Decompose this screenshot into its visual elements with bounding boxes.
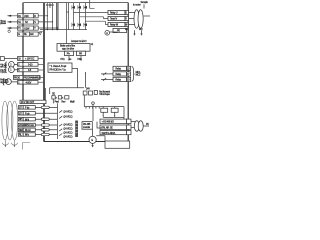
svg-text:PU: PU (146, 124, 149, 126)
svg-text:Multi: Multi (70, 100, 75, 103)
svg-text:(24 VDC): (24 VDC) (64, 133, 73, 135)
svg-text:+ RS-485 I/O: + RS-485 I/O (102, 122, 115, 124)
svg-text:RM: RM (19, 130, 23, 132)
svg-text:(24 VDC): (24 VDC) (64, 137, 73, 139)
svg-text:module: module (83, 127, 91, 129)
svg-text:STon Rape: STon Rape (99, 94, 110, 96)
svg-text:Relay U: Relay U (110, 13, 118, 15)
svg-text:Jumper rm ECO: Jumper rm ECO (71, 40, 87, 43)
svg-text:FRL NP, SE: FRL NP, SE (102, 127, 114, 129)
svg-text:mA DC: mA DC (0, 66, 7, 69)
svg-text:4-20V: 4-20V (26, 83, 32, 85)
svg-text:phase: phase (0, 23, 7, 25)
svg-text:GN: GN (30, 34, 34, 36)
svg-text:U1N: U1N (24, 16, 29, 18)
svg-text:signal in: signal in (0, 82, 8, 84)
svg-text:Terml V: Terml V (110, 18, 118, 21)
svg-text:RS-485: RS-485 (83, 124, 91, 126)
svg-text:24V: 24V (86, 88, 90, 90)
svg-text:G: G (18, 34, 20, 36)
svg-text:MC1,: MC1, (136, 72, 142, 74)
svg-text:PR: PR (79, 54, 82, 56)
svg-text:PROGRAMMABLE: PROGRAMMABLE (23, 77, 41, 80)
svg-text:(24 VDC): (24 VDC) (64, 129, 73, 131)
svg-text:(24 VDC): (24 VDC) (64, 117, 73, 119)
svg-text:to motor: to motor (133, 4, 141, 7)
svg-text:+ 10V DC: + 10V DC (25, 59, 35, 61)
svg-text:PROG: PROG (14, 78, 20, 80)
svg-text:V DC: V DC (0, 72, 6, 74)
svg-text:JOG/MRS Com: JOG/MRS Com (19, 125, 34, 127)
svg-text:* 1. Class A, B opt: * 1. Class A, B opt (50, 65, 67, 68)
svg-text:Brake unit of the: Brake unit of the (60, 45, 76, 48)
svg-text:(24 VDC): (24 VDC) (64, 125, 73, 127)
svg-text:G: G (91, 140, 93, 142)
svg-text:Sample: Sample (141, 2, 149, 4)
svg-text:SGHTG-RD21: SGHTG-RD21 (102, 133, 117, 135)
svg-text:M hi: M hi (25, 119, 30, 121)
svg-text:24 V DC OUT: 24 V DC OUT (21, 102, 35, 104)
svg-text:(24 VDC): (24 VDC) (64, 112, 73, 114)
svg-text:Not forward: Not forward (99, 90, 111, 93)
svg-text:FR-XC/DU-s * 1a: FR-XC/DU-s * 1a (50, 69, 67, 71)
svg-text:M md: M md (25, 130, 31, 132)
svg-text:RH: RH (19, 119, 23, 121)
svg-text:SD: SD (52, 94, 55, 96)
svg-text:Relay W: Relay W (110, 25, 119, 27)
svg-text:app. for drive: app. for drive (62, 48, 75, 51)
